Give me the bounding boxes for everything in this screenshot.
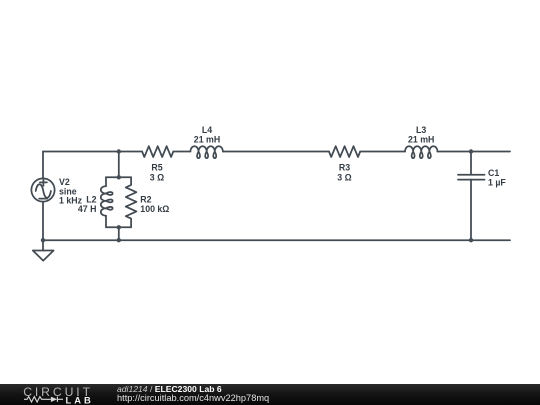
label V2 value [59,177,83,206]
node parallel block bottom [117,225,121,229]
svg-text:3 Ω: 3 Ω [150,172,164,182]
svg-text:1 µF: 1 µF [488,178,506,188]
label R5 value [150,162,164,182]
voltage source V2 [31,178,54,201]
wire top rail segment 1 [43,151,142,153]
footer logo resistor-diode symbol [24,397,63,402]
svg-text:L4: L4 [202,125,212,135]
label L2 value [78,195,97,214]
wire left vertical below V2 [42,202,44,241]
resistor R5 [142,146,173,157]
node parallel block top [117,175,121,179]
inductor L2 [101,177,113,227]
svg-text:L3: L3 [416,125,426,135]
svg-text:47 H: 47 H [78,204,97,214]
wire parallel block bottom bar [106,226,131,228]
label R2 value [140,195,169,214]
inductor L4 [190,146,223,158]
label L3 value [408,125,434,145]
capacitor C1 [458,152,485,241]
wire parallel block top bar [106,176,131,178]
wire top-left vertical (V2 to top rail) [42,152,44,179]
svg-text:3 Ω: 3 Ω [337,172,351,182]
inductor L3 [405,146,438,158]
wire bottom rail [43,239,510,241]
wire top rail segment 5 (L3 to right end) [437,151,510,153]
wire top rail segment 3 (L4 to R3) [223,151,329,153]
wire branch vertical lower (parallel block to bottom rail) [118,227,120,240]
node bottom rail / branch junction [117,238,121,242]
resistor R2 [126,177,137,227]
svg-text:R5: R5 [151,162,162,172]
ground [33,240,54,260]
node top rail / branch junction [117,149,121,153]
label L4 value [194,125,220,145]
svg-text:21 mH: 21 mH [408,134,434,144]
svg-text:http://circuitlab.com/c4nwv22h: http://circuitlab.com/c4nwv22hp78mq [117,393,269,403]
svg-text:21 mH: 21 mH [194,134,220,144]
svg-text:100 kΩ: 100 kΩ [140,204,169,214]
footer bar [0,384,540,405]
node C1 top [469,149,473,153]
node bottom-left (V2/ground) [41,238,45,242]
resistor R3 [329,146,360,157]
wire branch vertical upper (top rail to parallel block) [118,152,120,178]
svg-text:R3: R3 [339,162,350,172]
label C1 value [488,168,506,187]
svg-text:LAB: LAB [66,395,94,405]
wire top rail segment 4 (R3 to L3) [360,151,405,153]
label R3 value [337,162,351,182]
wire top rail segment 2 (R5 to L4) [173,151,190,153]
node C1 bottom [469,238,473,242]
